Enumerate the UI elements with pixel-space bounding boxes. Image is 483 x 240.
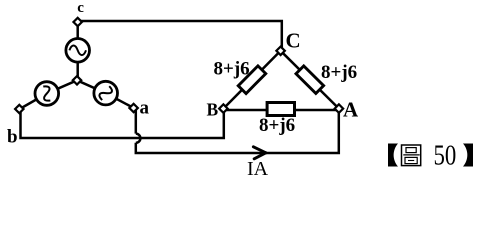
svg-text:b: b [7, 127, 18, 148]
svg-text:c: c [77, 0, 84, 16]
AC source Vc (top) [66, 39, 90, 63]
wire terminal a down to hop [135, 108, 138, 134]
terminal a diamond [129, 104, 137, 112]
svg-text:B: B [207, 100, 219, 120]
wire bottom run from hop to node A [136, 110, 339, 153]
node B diamond [219, 104, 227, 112]
figure caption bracket right [463, 144, 473, 167]
figure caption bracket left [388, 144, 398, 167]
wire B to A (bottom delta branch) [223, 109, 339, 112]
arrow IA on bottom wire [253, 147, 265, 159]
impedance box left (8+j6, branch B-C) [238, 66, 266, 94]
wire C to A (right delta branch) [281, 51, 339, 109]
svg-text:C: C [286, 29, 301, 53]
wire hop over b wire [136, 134, 141, 143]
svg-text:8+j6: 8+j6 [321, 62, 357, 83]
svg-text:50: 50 [434, 141, 457, 172]
svg-text:IA: IA [247, 158, 269, 180]
node C diamond [276, 47, 284, 55]
wire c terminal to corner above C [78, 21, 282, 51]
svg-text:8+j6: 8+j6 [259, 115, 295, 136]
figure caption character tu (figure) [402, 145, 421, 166]
wire star point through left source to terminal b and on to node B [21, 80, 224, 138]
svg-text:8+j6: 8+j6 [214, 58, 250, 79]
star point node diamond [73, 76, 81, 84]
wire star point through right source to terminal a [77, 80, 134, 108]
terminal c diamond [73, 18, 81, 26]
AC source Vb (left) [35, 82, 59, 106]
svg-text:a: a [140, 98, 150, 119]
terminal b diamond [15, 105, 23, 113]
AC source Va (right) [94, 81, 118, 105]
wire B to C (left delta branch) [223, 51, 280, 109]
impedance box right (8+j6, branch C-A) [296, 66, 324, 94]
svg-text:A: A [343, 98, 359, 122]
node A diamond [335, 104, 343, 112]
impedance box bottom (8+j6, branch B-A) [267, 103, 294, 116]
wire top source branch (c terminal to star point) [76, 22, 79, 80]
